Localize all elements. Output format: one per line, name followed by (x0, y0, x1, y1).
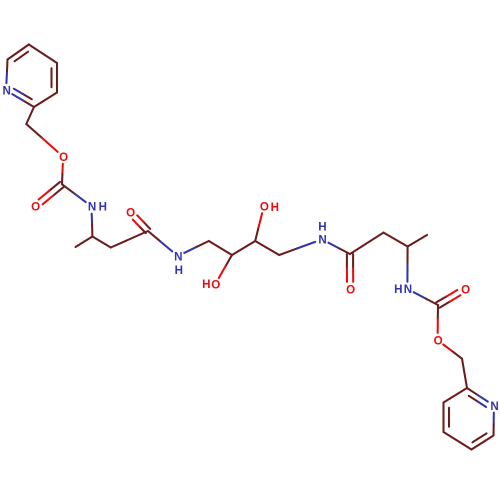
svg-text:H: H (394, 283, 402, 296)
wire C-CH2 right (350, 233, 384, 254)
wire ring-r C4=C3a (442, 403, 444, 433)
svg-text:O: O (346, 283, 355, 296)
wire CH2-C amide left (111, 231, 148, 248)
svg-text:N: N (88, 201, 96, 214)
wire CH-N right (406, 247, 408, 265)
wire ring-l C3a-C3 (34, 93, 57, 108)
svg-text:H: H (318, 221, 326, 234)
svg-text:N: N (3, 85, 11, 98)
wire C=O carbamate left (49, 182, 60, 191)
svg-text:O: O (211, 279, 220, 292)
svg-text:H: H (175, 264, 183, 277)
svg-text:O: O (434, 334, 443, 347)
wire C-N carbamate left (62, 184, 74, 193)
wire CH2-ring right (462, 359, 467, 388)
wire CH2-O ester (26, 124, 42, 138)
svg-text:N: N (318, 234, 326, 247)
wire CH-CH2 left (92, 237, 110, 248)
wire ring-r C3=N (467, 388, 477, 395)
wire C-OH upper (255, 227, 258, 241)
wire N-CH2 chain (184, 247, 196, 253)
wire C=O amide right (346, 254, 348, 268)
wire CH-CH3 left (76, 237, 93, 248)
wire C=O amide left (144, 222, 151, 229)
wire ring-l N-C6 (5, 71, 8, 83)
svg-text:O: O (126, 207, 135, 220)
wire O-CH2 right (443, 345, 452, 352)
wire CH2-CH(OH) (209, 241, 232, 255)
svg-text:N: N (490, 400, 498, 413)
wire C-OH lower (225, 255, 232, 267)
wire ring-r C3a-C3 (444, 388, 468, 403)
wire ring-r N-C6 (493, 413, 495, 424)
wire ring-l C4=C3a (56, 63, 58, 93)
wire ring-r C5-C4 (444, 432, 472, 450)
svg-text:H: H (99, 201, 107, 214)
wire N-CH left (91, 214, 93, 225)
wire C-O ester right (437, 305, 439, 319)
svg-text:O: O (260, 201, 269, 214)
wire C=O carbamate right (440, 302, 450, 308)
wire ring-l C6=C5 (8, 45, 29, 60)
wire ring-r C6=C5 (472, 436, 494, 450)
wire ring-l C5-C4 (29, 45, 57, 64)
wire N-C amide right (328, 243, 339, 249)
wire O-C carbamate (61, 164, 63, 174)
wire CH(OH)-CH2 (255, 241, 279, 255)
wire ring-CH2 (26, 107, 34, 124)
wire CH(OH)-CH(OH) (232, 241, 255, 255)
wire N-C carbamate right (414, 292, 426, 298)
wire CH-CH3 right (408, 235, 427, 247)
svg-text:O: O (59, 151, 68, 164)
svg-text:H: H (202, 278, 210, 291)
svg-text:N: N (404, 283, 412, 296)
svg-text:O: O (461, 283, 470, 296)
wire C-N amide left (148, 231, 160, 241)
wire CH2-N right (279, 248, 297, 255)
wire ring-l C3=N (23, 101, 34, 108)
wire CH2-CH right (384, 233, 408, 247)
svg-text:H: H (271, 201, 279, 214)
svg-text:O: O (31, 201, 40, 214)
svg-text:N: N (174, 250, 182, 263)
